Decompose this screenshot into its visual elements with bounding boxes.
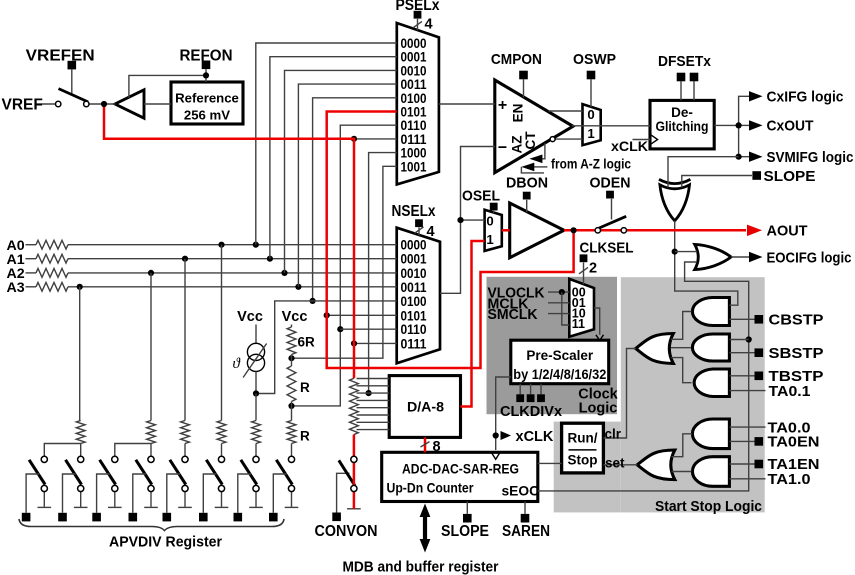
wire A3 row to NSELx input (68, 286, 397, 288)
wire SLOPE to XOR input (682, 176, 752, 188)
OR gate U5 (EOCIFG) (695, 244, 731, 269)
wire comparator output through OSWP to de-glitching (572, 125, 650, 127)
switch SW-APVDIV1 contacts (41, 456, 47, 462)
pin OSWP (587, 71, 596, 80)
wire VREF lead (36, 103, 57, 105)
wire red AOUT (564, 229, 746, 232)
svg-text:Pre-Scaler: Pre-Scaler (526, 348, 594, 363)
wire PSELx input 0011 (298, 84, 396, 287)
wire TA0EN input (729, 440, 754, 442)
APVDIV register brace (19, 519, 284, 531)
wire PSELx input 0000 (256, 43, 397, 245)
resistor A3 input (36, 282, 68, 291)
wire DFSETx controls (680, 81, 682, 100)
node A0 tap up (253, 242, 259, 248)
svg-text:Run/: Run/ (568, 430, 598, 445)
svg-text:CxOUT: CxOUT (767, 118, 814, 135)
svg-text:Glitching: Glitching (656, 119, 709, 134)
svg-text:NSELx: NSELx (392, 203, 436, 220)
wire NSELx input 0101 stub (327, 314, 397, 316)
wire PSELx input 1001 net (6R tap) (292, 166, 397, 358)
wire NSELx select bus (418, 227, 420, 235)
wire resistor to switch 6 (221, 444, 223, 457)
comparator output bubble (550, 137, 555, 142)
switch SW-APVDIV2 contacts (78, 456, 84, 462)
wire switch 4 control (133, 474, 146, 513)
node R-R tap (288, 403, 294, 409)
wire PSELx input 0111 stub (354, 138, 397, 140)
wire OR U5 output to EOCIFG (731, 256, 749, 258)
svg-text:Start Stop Logic: Start Stop Logic (655, 498, 762, 515)
OR gate U9 (clr) (636, 334, 674, 364)
wire CLKDIVx controls (519, 384, 521, 395)
AND gate U8 (TBSTP/TA0.1) (694, 369, 729, 397)
mux PSELx (397, 23, 439, 184)
node VREF to PSELx 0111 (351, 136, 357, 142)
svg-text:A3: A3 (7, 280, 25, 296)
wire A3 lead (26, 286, 37, 288)
wire resistor to switch 2 (80, 444, 82, 457)
wire XOR output down to AND gate U6 (675, 221, 738, 305)
wire temp sensor to node (255, 372, 257, 394)
wire reference box to buffer (144, 103, 171, 105)
pre-scaler box (511, 340, 609, 384)
wire AND U7 output to OR U9 (671, 347, 691, 349)
wire PSELx input 0100 net (313, 98, 397, 301)
wire AND U8 output to OR U9 (671, 358, 692, 383)
wire VREFEN control (71, 69, 73, 94)
wire to SVMIFG (739, 125, 749, 156)
svg-text:0010: 0010 (401, 266, 427, 281)
wire red OSEL to DBON buffer (502, 229, 510, 232)
svg-text:CLKSEL: CLKSEL (580, 240, 634, 257)
APVDIV control square 4 (129, 513, 138, 522)
svg-text:sEOC: sEOC (502, 483, 540, 498)
wire SLOPE bottom (466, 502, 468, 514)
wire PSELx input 1000 net (369, 153, 397, 394)
wire resistor to switch 7 (255, 444, 257, 457)
node A1 tap up (267, 256, 273, 262)
arrow SVMIFG (749, 152, 763, 162)
wire switch tap jog x114.8 (115, 444, 151, 457)
node de-glitch out (736, 122, 742, 128)
switch SW-APVDIV6 contacts (218, 456, 224, 462)
wire switch 7 bottom (255, 492, 257, 507)
svg-text:1: 1 (587, 126, 594, 141)
wire resistor to switch 8 (291, 444, 293, 457)
svg-text:−: − (498, 139, 507, 156)
de-glitching box (650, 100, 714, 148)
svg-text:0100: 0100 (401, 294, 427, 309)
wire ladder taps to D/A-8 (357, 378, 390, 380)
svg-text:2: 2 (589, 261, 597, 277)
pin TA0EN (755, 437, 764, 446)
svg-text:Up-Dn Counter: Up-Dn Counter (387, 480, 475, 495)
svg-text:CONVON: CONVON (315, 523, 378, 540)
ADC-DAC-SAR-REG box (382, 452, 538, 501)
switch SW-APVDIV5 contacts (182, 456, 188, 462)
wire switch 3 control (97, 474, 110, 513)
pin SBSTP (755, 348, 764, 357)
svg-text:SBSTP: SBSTP (769, 345, 824, 362)
comparator U2 (495, 80, 573, 173)
node VREF buffer (101, 101, 107, 107)
svg-text:0111: 0111 (401, 336, 427, 351)
svg-text:set: set (605, 455, 625, 470)
pin CBSTP (755, 315, 764, 324)
switch SW-APVDIV6 lever (206, 460, 222, 485)
switch SW-APVDIV5 lever (170, 460, 186, 485)
svg-text:SLOPE: SLOPE (764, 168, 816, 185)
node AOUT feedback (571, 227, 577, 233)
node SVMIFG (736, 154, 742, 160)
resistor APVDIV column 7 (252, 421, 261, 444)
svg-text:from A-Z logic: from A-Z logic (551, 156, 631, 171)
svg-text:0: 0 (587, 107, 594, 122)
node temp sensor (253, 390, 259, 396)
pin SLOPE bottom (463, 514, 472, 523)
resistor A2 input (36, 269, 68, 278)
node REFON (203, 72, 209, 78)
svg-text:ADC-DAC-SAR-REG: ADC-DAC-SAR-REG (402, 461, 519, 476)
node xCLK (493, 432, 499, 438)
wire CONVON control (337, 473, 350, 512)
wire from A-Z logic riser (534, 143, 545, 159)
AND gate U7 (SBSTP) (692, 334, 729, 361)
wire XOR node to OR U5 input (675, 251, 697, 253)
svg-text:MDB and buffer register: MDB and buffer register (343, 558, 499, 575)
wire from A-Z logic lower (534, 166, 547, 168)
wire switch 1 control (26, 474, 39, 513)
wire xCLK into de-glitching (633, 139, 651, 141)
APVDIV control square 3 (92, 513, 101, 522)
wire CLKSEL mux output to pre-scaler (594, 308, 600, 335)
svg-text:SVMIFG logic: SVMIFG logic (767, 149, 854, 166)
APVDIV control square 5 (163, 513, 172, 522)
wire SAR to run-stop (538, 462, 562, 464)
svg-text:+: + (498, 97, 507, 114)
resistor APVDIV column 2 (76, 421, 85, 444)
wire switch 6 control (203, 474, 216, 513)
wire OSEL input 0 (461, 219, 485, 221)
pin SLOPE out (752, 171, 761, 180)
pin DBON (523, 192, 531, 200)
svg-text:TA0.1: TA0.1 (769, 383, 811, 400)
node VREF to NSELx 0111 (351, 340, 357, 346)
wire A3 down to ladder (79, 287, 81, 421)
svg-text:0000: 0000 (401, 238, 427, 253)
switch SW3 contacts (CONVON) (351, 456, 357, 462)
AND gate U6 (CBSTP) (692, 298, 729, 326)
node 0100 row (310, 298, 316, 304)
wire switch 2 control (63, 474, 76, 513)
switch SW-APVDIV3 lever (100, 460, 116, 485)
node DAC to NSELx 0101 (324, 312, 330, 318)
pin ODEN (606, 191, 614, 199)
AND gate U11 (TA1EN/TA1.0) (692, 457, 729, 487)
resistor A0 input (36, 240, 68, 249)
wire TA0.1 input (729, 390, 765, 392)
D/A-8 box (389, 376, 460, 438)
wire to CxOUT (739, 124, 749, 126)
clock triangle de-glitching (651, 135, 658, 144)
wire A2 row to NSELx input (68, 272, 397, 274)
wire temp node down (255, 394, 257, 421)
resistor 6R (287, 327, 296, 355)
arrow from A-Z logic lower (521, 163, 534, 172)
pin PSELx (414, 11, 422, 19)
clock triangle SAR (492, 453, 500, 460)
wire switch 5 control (167, 474, 180, 513)
wire OR U9 output to clr (603, 349, 636, 439)
node ladder tap 1000 (366, 390, 372, 396)
wire A1 lead (26, 258, 37, 260)
wire comparator AZ bubble to OSWP 1 (555, 138, 583, 140)
mux OSWP (583, 104, 601, 145)
resistor APVDIV column 4 (147, 421, 156, 444)
wire PSELx input 0001 (270, 57, 397, 259)
wire resistor to switch 4 (150, 444, 152, 457)
svg-text:OSEL: OSEL (462, 187, 500, 204)
switch SW1 lever (VREFEN) (59, 89, 89, 102)
node sEOC to AND U7 (746, 336, 752, 342)
wire switch 1 bottom (43, 492, 45, 507)
wire switch 4 bottom (150, 492, 152, 507)
temp sensor (two circles) (247, 343, 264, 360)
switch SW-APVDIV7 contacts (253, 456, 259, 462)
wire CONVON bottom tick (347, 508, 361, 510)
wire red CONVON rail (353, 435, 356, 509)
svg-text:0110: 0110 (401, 322, 427, 337)
clock logic shaded region (487, 277, 618, 414)
wire NSELx input 0110 stub (340, 328, 396, 330)
svg-text:1001: 1001 (401, 159, 427, 174)
svg-text:4: 4 (427, 224, 435, 240)
svg-text:Logic: Logic (579, 401, 618, 417)
XOR gate U4 (slope output) (660, 185, 690, 221)
wire SVMIFG to XOR input (668, 157, 739, 188)
svg-text:CT: CT (523, 131, 538, 150)
wire AND U11 output to OR U12 (672, 471, 692, 473)
wire SMCLK input (548, 313, 569, 315)
svg-text:1: 1 (486, 232, 493, 247)
wire PSELx output to comparator + (439, 103, 495, 105)
node 0110 row (337, 326, 343, 332)
bus slash 8 (421, 442, 430, 447)
wire A1 row to NSELx input (68, 258, 397, 260)
wire switch to node (86, 103, 115, 105)
wire Vcc to temp sensor (255, 325, 257, 344)
wire AND U6 output to OR U9 (671, 312, 692, 340)
node comparator minus / OSEL0 (457, 217, 463, 223)
wire A1 down to ladder (184, 259, 186, 421)
wire switch 5 bottom (184, 492, 186, 507)
pin SAREN (521, 514, 530, 523)
node A3 tap up (295, 284, 301, 290)
wire switch tap jog x44.3 (44, 444, 80, 457)
svg-text:De-: De- (671, 105, 693, 120)
svg-text:0001: 0001 (401, 252, 427, 267)
mux OSEL (485, 210, 502, 251)
wire OSEL control (493, 211, 495, 213)
svg-text:CxIFG logic: CxIFG logic (767, 89, 844, 106)
svg-text:Reference: Reference (175, 90, 239, 105)
svg-text:0: 0 (486, 213, 493, 228)
wire temp sensor to row 0100 (256, 301, 397, 394)
wire ODEN control (611, 199, 613, 220)
wire red VREF reference rail (104, 104, 354, 378)
svg-text:TA1.0: TA1.0 (768, 471, 811, 488)
arrow EOCIFG (749, 252, 763, 262)
pin VREFEN (68, 61, 77, 70)
arrow CxIFG (749, 91, 763, 101)
switch SW2 contacts (ODEN) (595, 228, 600, 233)
wire xCLK from pre-scaler to SAR clock (496, 377, 511, 450)
wire TA0.0 input (729, 426, 765, 428)
pin CLKDIVx (516, 394, 524, 402)
wire A0 row to NSELx input (68, 244, 397, 246)
switch SW-APVDIV1 lever (29, 460, 45, 485)
wire red DAC output to OSEL 1 (461, 241, 485, 407)
start stop logic shaded region (621, 277, 765, 512)
wire sEOC branch to AND U7 input (729, 339, 748, 341)
wire switch 2 bottom (80, 492, 82, 507)
switch SW-APVDIV4 lever (136, 460, 152, 485)
svg-text:SLOPE: SLOPE (441, 523, 489, 540)
wire sEOC net to OR U5 and AND U7 (538, 262, 749, 491)
svg-text:SAREN: SAREN (502, 523, 550, 540)
buffer U3 DBON (output driver) (510, 203, 564, 258)
svg-text:8: 8 (433, 439, 441, 455)
clock triangle pre-scaler (596, 335, 604, 341)
pin TBSTP (755, 372, 764, 381)
svg-text:0011: 0011 (401, 280, 427, 295)
svg-text:4: 4 (425, 16, 433, 32)
APVDIV control square 6 (199, 513, 208, 522)
svg-text:CBSTP: CBSTP (769, 311, 824, 328)
MDB double arrow (420, 504, 431, 553)
svg-text:xCLK: xCLK (516, 429, 554, 445)
svg-text:ODEN: ODEN (590, 175, 631, 192)
arrow from A-Z logic upper (529, 155, 542, 164)
wire R to R (291, 402, 293, 421)
wire de-glitching output node (714, 124, 738, 126)
switch SW-APVDIV8 lever (276, 460, 292, 485)
svg-text:0101: 0101 (401, 308, 427, 323)
svg-text:CLKDIVx: CLKDIVx (500, 404, 562, 420)
switch SW2 lever (ODEN) (599, 216, 626, 228)
resistor APVDIV column 6 (217, 421, 226, 444)
wire CMPON control (523, 79, 525, 97)
svg-text:SMCLK: SMCLK (488, 307, 539, 323)
node A2 tap up (281, 270, 287, 276)
node XOR output (672, 249, 678, 255)
resistor APVDIV column 5 (181, 421, 190, 444)
wire switch 3 bottom (114, 492, 116, 507)
node A3 tap down (77, 284, 83, 290)
svg-text:Vcc: Vcc (282, 309, 308, 325)
wire to CxIFG (739, 96, 749, 125)
arrow xCLK (501, 431, 512, 440)
switch SW-APVDIV7 lever (241, 460, 257, 485)
pin DFSETx (677, 73, 686, 82)
switch SW-APVDIV3 contacts (112, 456, 118, 462)
APVDIV control square 7 (234, 513, 243, 522)
APVDIV control square 1 (22, 513, 31, 522)
wire resistor to switch 5 (184, 444, 186, 457)
resistor A1 input (36, 254, 68, 263)
APVDIV control square 2 (58, 513, 67, 522)
node 6R tap (288, 355, 294, 361)
svg-text:R: R (300, 380, 310, 395)
svg-text:TA0EN: TA0EN (768, 434, 820, 451)
wire REFON control (205, 69, 207, 75)
mux NSELx (397, 228, 440, 364)
wire switch 8 bottom (291, 492, 293, 507)
wire 6R to R (291, 355, 293, 367)
mux CLKSEL (569, 279, 594, 337)
switch SW-APVDIV2 lever (66, 460, 82, 485)
switch SW-APVDIV4 contacts (148, 456, 154, 462)
svg-text:R: R (300, 429, 310, 444)
wire A2 down to ladder (150, 273, 152, 421)
wire VLOCLK to input 11 (562, 292, 570, 325)
wire MCLK input (548, 302, 569, 304)
arrow AOUT (747, 225, 762, 237)
APVDIV control square 8 (269, 513, 278, 522)
switch SW1 contacts (56, 101, 61, 106)
wire comparator top edge to OSWP 0 (549, 110, 583, 112)
wire red DAC bus to SAR (424, 437, 427, 452)
wire A0 lead (26, 244, 37, 246)
svg-text:VREF: VREF (2, 96, 43, 113)
svg-text:by 1/2/4/8/16/32: by 1/2/4/8/16/32 (513, 367, 606, 382)
wire DBON control (526, 200, 528, 212)
pin CLKSEL (580, 254, 588, 262)
start stop logic shaded region lower-left extension (554, 422, 621, 513)
wire VLOCLK input (548, 291, 569, 293)
wire Vcc lead right chain (291, 325, 293, 328)
node A1 tap down (182, 256, 188, 262)
wire SAREN (524, 502, 526, 514)
wire A2 lead (26, 272, 37, 274)
svg-text:xCLK: xCLK (611, 139, 649, 155)
wire PSELx select bus (417, 19, 419, 30)
wire TBSTP input (729, 375, 754, 377)
wire NSELx input 0111 stub (354, 342, 397, 344)
svg-text:clr: clr (605, 426, 622, 441)
svg-text:6R: 6R (298, 335, 316, 350)
CONVON control square (332, 513, 341, 522)
svg-text:PSELx: PSELx (396, 0, 440, 14)
wire SBSTP input (729, 352, 754, 354)
svg-text:256 mV: 256 mV (184, 107, 230, 122)
reference 256mV box (171, 82, 243, 124)
pin CMPON (519, 71, 528, 80)
svg-text:AOUT: AOUT (767, 223, 808, 240)
wire TA1EN input (729, 463, 754, 465)
wire switch 8 control (273, 474, 286, 513)
svg-text:OSWP: OSWP (573, 51, 616, 68)
wire red DAC feedback to 0101 inputs (327, 112, 574, 369)
wire switch 6 bottom (221, 492, 223, 507)
pin REFON (202, 61, 211, 70)
svg-text:APVDIV Register: APVDIV Register (109, 533, 222, 550)
svg-text:EN: EN (511, 104, 526, 123)
svg-text:Stop: Stop (568, 453, 598, 468)
svg-text:REFON: REFON (180, 48, 233, 65)
svg-text:CMPON: CMPON (491, 51, 542, 68)
